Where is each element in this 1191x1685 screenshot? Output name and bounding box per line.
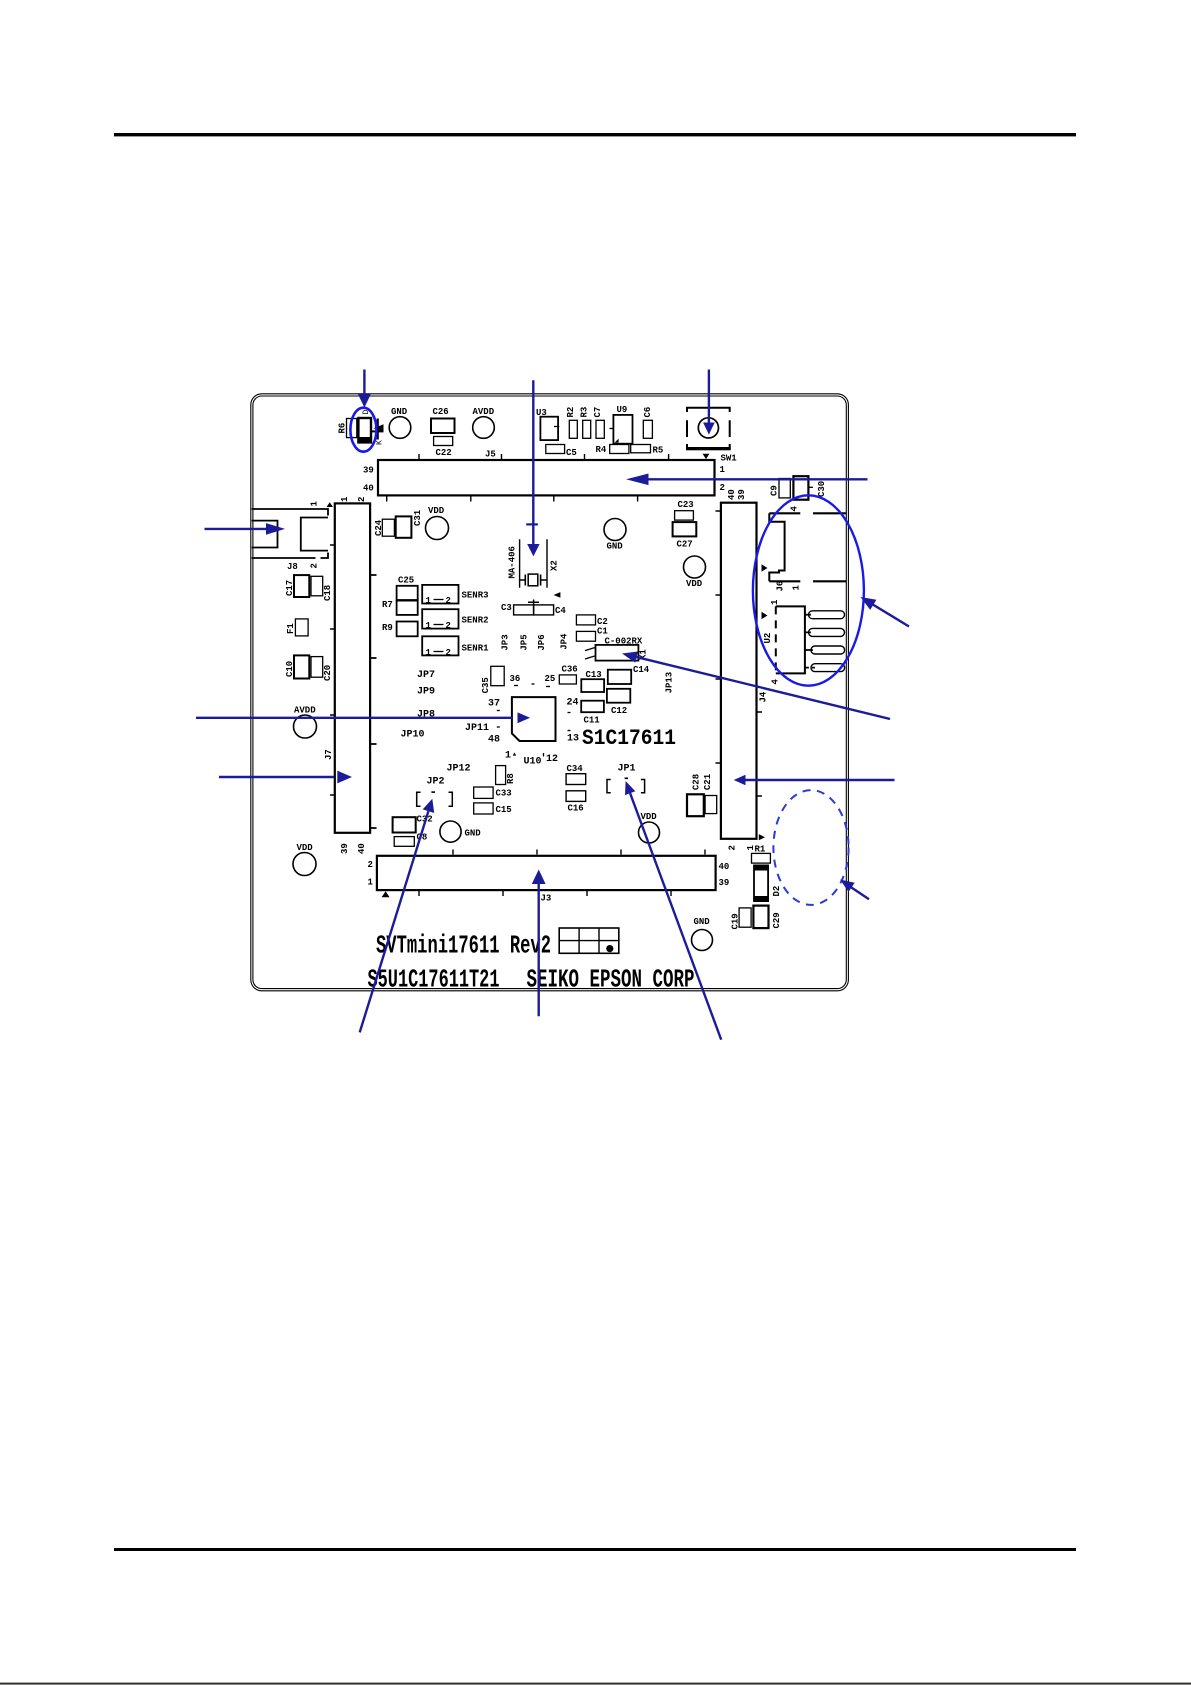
annotation arrow to JP1 (625, 781, 721, 1040)
svg-text:12: 12 (546, 754, 558, 765)
jumper SENR2 (422, 609, 488, 631)
svg-text:GND: GND (694, 917, 711, 927)
diode D1 (358, 410, 384, 446)
GND pad bottom right (692, 917, 713, 951)
annotation arrow to J5 (626, 474, 868, 486)
IC U9 (610, 405, 633, 444)
svg-text:C22: C22 (436, 448, 452, 458)
svg-text:13: 13 (567, 734, 579, 745)
svg-text:J4: J4 (759, 691, 769, 702)
capacitor C23 (675, 500, 694, 520)
svg-text:GND: GND (391, 407, 408, 417)
svg-text:C3: C3 (501, 603, 512, 613)
svg-text:40: 40 (363, 484, 374, 494)
jumper SENR1 (422, 636, 489, 658)
capacitor C7 (593, 407, 604, 439)
svg-text:1: 1 (505, 751, 511, 762)
svg-text:S5U1C17611T21: S5U1C17611T21 (368, 965, 500, 995)
AVDD pad top (473, 407, 495, 438)
svg-text:2: 2 (446, 621, 451, 631)
svg-text:37: 37 (488, 699, 500, 710)
svg-text:48: 48 (488, 735, 500, 746)
resistor R9 (382, 622, 418, 637)
svg-text:R2: R2 (566, 407, 576, 418)
jumper JP6 label (537, 634, 547, 650)
jumper JP1 (607, 764, 645, 793)
svg-text:C10: C10 (285, 661, 295, 677)
svg-text:JP11: JP11 (465, 723, 489, 734)
svg-text:C14: C14 (633, 665, 650, 675)
jumper JP3 label (501, 634, 511, 650)
annotation arrow to JP2 (360, 799, 435, 1033)
annotation arrow to J7 (219, 771, 352, 784)
svg-text:MA-406: MA-406 (508, 546, 518, 578)
resistor R6 label (338, 419, 357, 438)
jumper JP10 label (401, 730, 425, 741)
svg-text:U3: U3 (536, 408, 547, 418)
svg-text:36: 36 (510, 674, 521, 684)
svg-text:1: 1 (310, 501, 320, 507)
svg-text:SENR1: SENR1 (462, 644, 490, 654)
svg-text:C27: C27 (677, 540, 693, 550)
capacitor C17 (285, 575, 309, 597)
capacitor C35 (481, 666, 504, 693)
connector J8 (252, 501, 333, 573)
resistor R7 (382, 600, 418, 615)
connector U2 (762, 599, 845, 685)
IC S1C17611 label (582, 726, 676, 751)
annotation ellipse around D1 (350, 408, 376, 452)
annotation arrow to J8 (205, 523, 286, 535)
svg-text:JP2: JP2 (427, 777, 445, 788)
svg-text:JP4: JP4 (560, 633, 570, 650)
pin 36 label (510, 674, 521, 686)
capacitor C36 (559, 664, 577, 684)
svg-text:D2: D2 (772, 886, 782, 897)
svg-text:39: 39 (737, 489, 747, 500)
svg-text:U2: U2 (763, 633, 773, 644)
capacitor C20 (311, 657, 333, 681)
annotation arrow to J4 (734, 775, 895, 786)
capacitor C21 (703, 773, 717, 813)
svg-text:SVTmini17611 Rev2: SVTmini17611 Rev2 (376, 931, 551, 961)
svg-text:2: 2 (446, 596, 451, 606)
maker SEIKO EPSON CORP (527, 965, 695, 995)
svg-text:X2: X2 (550, 560, 560, 571)
svg-text:2: 2 (368, 860, 373, 870)
pin 13 label (567, 731, 579, 745)
VDD pad right (684, 556, 706, 589)
jumper JP7 label (417, 670, 435, 681)
IC U10 (505, 697, 558, 767)
connector J5 (363, 450, 726, 502)
capacitor C2 (576, 615, 607, 627)
svg-text:C9: C9 (770, 485, 780, 496)
svg-text:C35: C35 (481, 677, 491, 693)
connector J3 (368, 850, 730, 904)
svg-text:C30: C30 (817, 481, 827, 497)
svg-text:JP12: JP12 (447, 764, 471, 775)
capacitor C12 (607, 689, 630, 716)
svg-text:SEIKO EPSON CORP: SEIKO EPSON CORP (527, 965, 695, 995)
svg-text:J6: J6 (776, 581, 786, 592)
resistor R1 (752, 845, 771, 864)
svg-text:1: 1 (426, 596, 432, 606)
svg-text:SENR2: SENR2 (462, 616, 489, 626)
capacitor C14 (608, 665, 650, 684)
svg-text:K: K (376, 440, 385, 445)
svg-text:C29: C29 (772, 912, 782, 928)
svg-text:U9: U9 (617, 405, 628, 415)
annotation arrow to SW1 (703, 370, 715, 435)
svg-text:39: 39 (363, 466, 374, 476)
jumper JP13 label (665, 672, 675, 694)
svg-text:39: 39 (719, 878, 730, 888)
svg-text:4: 4 (790, 506, 800, 512)
svg-text:R4: R4 (596, 445, 607, 455)
svg-text:JP9: JP9 (417, 687, 435, 698)
svg-text:JP3: JP3 (501, 634, 511, 650)
AVDD pad left (294, 706, 317, 739)
svg-text:40: 40 (357, 843, 367, 854)
capacitor C18 (311, 576, 333, 601)
svg-text:C26: C26 (433, 407, 449, 417)
svg-text:2: 2 (357, 497, 367, 502)
jumper JP8 label (417, 710, 435, 721)
resistor R3 (580, 407, 591, 439)
capacitor C9 (770, 479, 791, 498)
svg-text:C24: C24 (374, 519, 384, 536)
svg-text:AVDD: AVDD (294, 706, 316, 716)
svg-text:C23: C23 (678, 500, 694, 510)
connector J7 (324, 496, 377, 854)
annotation dashed ellipse (773, 790, 848, 905)
pin 24 label (567, 698, 579, 713)
svg-text:U10: U10 (524, 757, 542, 768)
svg-text:C36: C36 (562, 664, 578, 674)
svg-text:2: 2 (446, 648, 451, 658)
resistor R8 (496, 766, 516, 785)
svg-text:VDD: VDD (686, 579, 703, 589)
GND pad top (389, 407, 411, 438)
svg-text:2: 2 (310, 563, 320, 568)
capacitor C24 (374, 519, 394, 536)
svg-text:1: 1 (426, 621, 432, 631)
IC U3 (536, 408, 559, 440)
jumper JP12 label (447, 764, 471, 775)
svg-text:C20: C20 (323, 665, 333, 681)
svg-text:J3: J3 (541, 894, 552, 904)
svg-text:40: 40 (719, 862, 730, 872)
svg-text:JP5: JP5 (520, 634, 530, 650)
pin 37 label (488, 699, 500, 711)
svg-text:2: 2 (728, 845, 738, 850)
capacitor C28 (687, 774, 704, 816)
annotation ellipse around J6 U2 (753, 495, 864, 685)
capacitor C33 (474, 787, 512, 799)
annotation arrow to U10 (196, 712, 530, 723)
svg-text:39: 39 (340, 843, 350, 854)
svg-text:C12: C12 (611, 706, 627, 716)
board part number S5U1C17611T21 (368, 965, 500, 995)
svg-text:R3: R3 (580, 407, 590, 418)
svg-text:R8: R8 (506, 773, 516, 784)
jumper JP9 label (417, 687, 435, 698)
pin 25 label (532, 674, 556, 687)
resistor R2 (566, 407, 577, 439)
capacitor C30 (793, 476, 827, 500)
svg-text:40: 40 (727, 489, 737, 500)
svg-text:F1: F1 (286, 623, 296, 634)
jumper JP5 label (520, 634, 530, 650)
VDD pad left lower (293, 843, 316, 876)
board outline outer (251, 394, 849, 991)
svg-text:C16: C16 (568, 804, 584, 814)
capacitor C1 (576, 627, 608, 642)
svg-text:JP10: JP10 (401, 730, 425, 741)
capacitor C10 (285, 655, 309, 678)
svg-text:C11: C11 (584, 716, 601, 726)
header rule (114, 133, 1076, 136)
svg-text:JP13: JP13 (665, 672, 675, 694)
capacitor C29 (753, 906, 782, 929)
svg-text:R5: R5 (653, 446, 664, 456)
switch SW1 (686, 408, 737, 464)
pin 48 label (488, 735, 500, 746)
crystal X1 C-002RX (585, 636, 649, 660)
svg-text:AVDD: AVDD (473, 407, 495, 417)
annotation arrow to X2 (526, 380, 539, 556)
svg-text:C33: C33 (496, 789, 512, 799)
jumper SENR3 (422, 585, 488, 606)
VDD pad mid lower (639, 812, 660, 843)
svg-text:C17: C17 (285, 580, 295, 596)
svg-text:C25: C25 (398, 576, 414, 586)
connector J4 (716, 489, 769, 850)
svg-text:C1: C1 (597, 627, 608, 637)
svg-text:1: 1 (426, 648, 432, 658)
page bottom edge artifact (0, 1683, 1191, 1685)
capacitor C31 (396, 509, 423, 538)
svg-text:C34: C34 (567, 764, 584, 774)
resistor R4 (596, 445, 629, 456)
svg-text:VDD: VDD (428, 506, 445, 516)
revision grid (559, 928, 619, 953)
capacitor C32 (393, 815, 433, 833)
svg-text:SW1: SW1 (721, 454, 738, 464)
capacitor C11 (581, 701, 604, 726)
annotation arrow to J3 (532, 870, 546, 1017)
svg-text:C7: C7 (593, 407, 603, 418)
capacitor C15 (474, 803, 512, 815)
jumper JP4 label (560, 633, 570, 650)
svg-text:C4: C4 (555, 606, 566, 616)
GND pad mid lower (440, 821, 481, 842)
svg-text:C5: C5 (566, 448, 577, 458)
capacitor C27 (673, 522, 697, 549)
capacitor C25 (397, 576, 418, 601)
svg-text:JP7: JP7 (417, 670, 435, 681)
annotation arrow to X1 (622, 652, 890, 720)
VDD pad upper mid (426, 506, 449, 540)
capacitor C5 (546, 445, 577, 459)
svg-text:JP1: JP1 (618, 764, 636, 775)
svg-text:C31: C31 (413, 509, 423, 526)
capacitor C8 (394, 833, 427, 847)
svg-text:J8: J8 (287, 562, 298, 572)
annotation arrow to dashed ellipse (840, 880, 869, 900)
jumper JP11 label (465, 723, 500, 734)
capacitor C16 (566, 791, 586, 814)
svg-text:S1C17611: S1C17611 (582, 726, 676, 751)
svg-text:SENR3: SENR3 (462, 591, 489, 601)
svg-text:1: 1 (770, 599, 780, 605)
connector J6 (762, 506, 847, 592)
svg-text:C15: C15 (496, 805, 512, 815)
crystal X2 MA-406 (508, 539, 560, 588)
annotation arrow to D1 (358, 370, 371, 408)
svg-text:4: 4 (771, 679, 781, 685)
svg-text:C28: C28 (692, 774, 702, 790)
diode D2 (754, 865, 782, 901)
svg-text:JP6: JP6 (537, 634, 547, 650)
svg-text:1: 1 (720, 465, 726, 475)
board outline inner (253, 396, 846, 989)
capacitor C22 (434, 437, 453, 459)
GND pad middle (604, 519, 626, 552)
svg-text:2: 2 (720, 483, 725, 493)
svg-text:J5: J5 (485, 450, 496, 460)
svg-text:C21: C21 (703, 773, 713, 790)
svg-text:1: 1 (368, 878, 374, 888)
svg-text:R9: R9 (382, 623, 393, 633)
fuse F1 (286, 619, 308, 636)
svg-text:1: 1 (792, 585, 802, 591)
svg-text:GND: GND (465, 829, 482, 839)
marker triangle below X2 (554, 592, 561, 598)
svg-text:VDD: VDD (297, 843, 314, 853)
jumper JP2 (417, 777, 453, 807)
footer rule (114, 1548, 1076, 1551)
capacitor C34 (566, 764, 586, 785)
capacitor C26 (431, 407, 455, 433)
svg-text:C6: C6 (643, 407, 653, 418)
svg-text:24: 24 (567, 698, 579, 709)
resistor R5 (631, 445, 664, 456)
svg-text:R7: R7 (382, 600, 393, 610)
capacitor C13 (581, 670, 604, 692)
board title SVTmini17611 Rev2 (376, 931, 551, 961)
capacitor C6 (643, 407, 653, 439)
capacitor C3 C4 (501, 600, 566, 617)
svg-text:J7: J7 (324, 749, 334, 760)
svg-text:C18: C18 (323, 585, 333, 601)
svg-text:GND: GND (607, 542, 624, 552)
svg-text:25: 25 (545, 674, 556, 684)
capacitor C19 (731, 908, 752, 930)
svg-text:C19: C19 (731, 913, 741, 929)
svg-text:1: 1 (340, 496, 350, 502)
annotation arrow to J6 U2 ellipse (861, 597, 910, 627)
svg-text:VDD: VDD (641, 812, 658, 822)
svg-text:C2: C2 (597, 617, 608, 627)
